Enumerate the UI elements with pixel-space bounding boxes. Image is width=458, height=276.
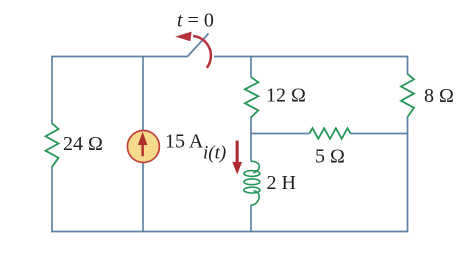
wire top rail left segment	[52, 56, 188, 58]
wire right rail lower	[407, 117, 409, 233]
switch blade	[188, 34, 209, 57]
wire right rail upper	[407, 56, 409, 74]
resistor R 12ohm	[245, 77, 258, 118]
wire middle branch upper	[250, 57, 252, 78]
svg-text:12 Ω: 12 Ω	[266, 85, 306, 107]
current source I1 15A circle	[127, 131, 159, 163]
resistor R 5ohm	[310, 128, 351, 139]
svg-text:15 A: 15 A	[165, 131, 204, 153]
svg-text:i(t): i(t)	[203, 143, 226, 164]
wire 5 ohm branch right	[351, 133, 409, 135]
wire left rail upper	[51, 56, 53, 124]
switch opening arc arrow	[175, 32, 211, 68]
svg-text:5 Ω: 5 Ω	[315, 146, 345, 168]
current source arrow	[138, 132, 148, 157]
wire middle branch lower	[250, 205, 252, 232]
inductor L 2H	[244, 161, 260, 205]
wire 5 ohm branch left	[251, 133, 310, 135]
svg-text:8 Ω: 8 Ω	[424, 85, 454, 107]
i(t) current arrow	[232, 141, 242, 175]
wire current source branch upper	[142, 57, 144, 131]
resistor R 8ohm	[401, 74, 414, 117]
svg-text:2 H: 2 H	[267, 172, 296, 194]
wire current source branch lower	[142, 162, 144, 232]
wire left rail lower	[51, 167, 53, 233]
wire top rail right segment	[214, 56, 408, 58]
wire bottom rail	[51, 231, 408, 233]
wire middle branch between 12ohm and inductor	[250, 117, 252, 161]
svg-text:t = 0: t = 0	[177, 9, 214, 31]
resistor R 24ohm	[46, 123, 59, 166]
svg-text:24 Ω: 24 Ω	[63, 133, 103, 155]
